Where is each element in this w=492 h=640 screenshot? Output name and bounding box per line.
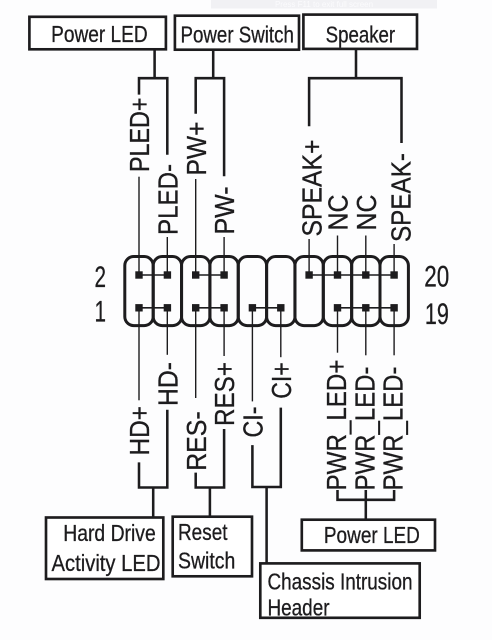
pin square bottom row col 1 — [135, 304, 142, 311]
svg-text:CI-: CI- — [238, 407, 269, 438]
box Power Switch — [175, 16, 299, 50]
wire bracket to Reset box — [209, 488, 212, 517]
svg-text:CI+: CI+ — [266, 362, 297, 399]
pin bar top row pins 14-20 — [309, 274, 394, 276]
pin square top row col 10 — [390, 271, 397, 278]
wire pin to CI+ — [280, 308, 282, 357]
svg-text:RES+: RES+ — [209, 362, 240, 426]
wire Speaker box to bracket — [355, 49, 358, 78]
pin square bottom row col 4 — [220, 304, 227, 311]
pin bar top row pins 6-8 — [196, 274, 224, 276]
svg-text:RES-: RES- — [181, 411, 212, 471]
wire NC 18 to pin — [365, 236, 367, 276]
wire pin to RES+ — [223, 308, 225, 356]
svg-text:19: 19 — [425, 298, 449, 331]
pin square bottom row col 9 — [362, 304, 369, 311]
bracket Speaker pins 14-20 — [309, 78, 401, 143]
pin bar top row pins 2-4 — [139, 274, 167, 276]
svg-text:Power LED: Power LED — [324, 522, 420, 548]
wire bracket to Power LED box — [365, 500, 368, 520]
pin square bottom row col 5 — [249, 304, 256, 311]
svg-text:PWR_LED+: PWR_LED+ — [321, 360, 352, 491]
wire PW- to pin — [223, 237, 225, 275]
bracket Chassis Intrusion pins 9-11 — [252, 408, 280, 487]
wire pin to RES- — [195, 308, 197, 398]
pin bar bottom row pins 5-7 — [196, 307, 224, 309]
box Reset Switch — [173, 517, 252, 577]
bracket Reset Switch pins 5-7 — [196, 429, 224, 488]
svg-text:Power LED: Power LED — [51, 21, 148, 47]
wire Power LED box to bracket — [153, 49, 156, 78]
svg-text:Activity LED: Activity LED — [52, 550, 161, 576]
wire Power Switch box to bracket — [212, 50, 215, 78]
wire PW+ to pin — [195, 179, 197, 275]
wire pin to HD- — [166, 308, 168, 355]
svg-text:Switch: Switch — [178, 548, 235, 574]
wire PLED- to pin — [166, 237, 168, 275]
pin square top row col 1 — [135, 271, 142, 278]
wire bracket to Chassis box — [265, 487, 268, 563]
svg-text:NC: NC — [323, 195, 354, 231]
wire pin to PWR_LED- 19 — [393, 308, 395, 356]
svg-text:PW-: PW- — [209, 187, 240, 235]
box Chassis Intrusion Header — [260, 563, 419, 617]
pin square top row col 9 — [362, 271, 369, 278]
bracket Power LED pins 15-19 — [338, 490, 395, 500]
box Power LED (bottom) — [302, 520, 435, 551]
svg-text:PWR_LED-: PWR_LED- — [378, 367, 409, 491]
svg-text:HD-: HD- — [153, 362, 184, 406]
svg-text:PW+: PW+ — [181, 122, 212, 176]
pin square bottom row col 3 — [192, 304, 199, 311]
pin square top row col 2 — [164, 271, 171, 278]
connector header outline 10 cells — [125, 257, 409, 326]
svg-text:Reset: Reset — [178, 519, 228, 545]
pin square bottom row col 2 — [164, 304, 171, 311]
pin square bottom row col 8 — [334, 304, 341, 311]
svg-text:PWR_LED-: PWR_LED- — [349, 367, 380, 491]
svg-text:SPEAK-: SPEAK- — [385, 153, 416, 242]
box Hard Drive Activity LED — [46, 518, 163, 580]
pin square bottom row col 10 — [390, 304, 397, 311]
svg-text:NC: NC — [351, 195, 382, 231]
svg-text:Header: Header — [268, 595, 330, 621]
pin square top row col 4 — [220, 271, 227, 278]
svg-text:1: 1 — [95, 296, 107, 329]
svg-text:20: 20 — [424, 261, 449, 294]
svg-text:Chassis Intrusion: Chassis Intrusion — [268, 568, 413, 594]
fullscreen toast bar — [211, 0, 437, 9]
pin square top row col 3 — [192, 271, 199, 278]
wire bracket to Hard Drive box — [152, 488, 155, 518]
bracket Hard Drive LED pins 1-3 — [139, 410, 167, 488]
box Speaker — [303, 15, 417, 49]
svg-text:HD+: HD+ — [124, 406, 155, 456]
box Power LED (top) — [29, 17, 166, 50]
svg-text:Speaker: Speaker — [326, 21, 396, 47]
svg-text:2: 2 — [95, 261, 107, 294]
pin square top row col 7 — [305, 271, 312, 278]
wire PLED+ to pin — [138, 177, 140, 275]
svg-text:Power Switch: Power Switch — [181, 21, 294, 47]
wire NC 16 to pin — [337, 236, 339, 276]
wire SPEAK+ to pin — [308, 239, 310, 275]
bracket Power Switch pins 6-8 — [196, 78, 224, 176]
wire SPEAK- to pin — [393, 244, 395, 275]
svg-text:Hard Drive: Hard Drive — [63, 520, 156, 546]
pin square bottom row col 6 — [277, 304, 284, 311]
svg-text:PLED+: PLED+ — [124, 98, 155, 173]
wire pin to PWR_LED+ — [337, 308, 339, 353]
wire pin to HD+ — [138, 308, 140, 401]
svg-text:Press F11 to exit full scree: Press F11 to exit full screen — [275, 0, 373, 9]
bracket Power LED pins 2-4 — [139, 78, 167, 155]
pin square top row col 8 — [334, 271, 341, 278]
svg-text:PLED-: PLED- — [153, 164, 184, 235]
pin bar bottom row pins 9-11 — [252, 307, 280, 309]
wire pin to CI- — [251, 308, 253, 402]
pin bar bottom row pins 1-3 — [139, 307, 167, 309]
wire pin to PWR_LED- 17 — [365, 308, 367, 356]
stub PWR_LED- 17 to bracket — [365, 490, 368, 500]
pin bar bottom row pins 15-19 — [338, 307, 395, 309]
